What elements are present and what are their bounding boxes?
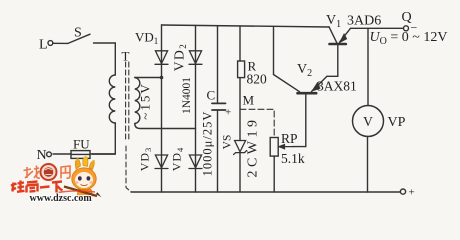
svg-text:V: V xyxy=(363,114,373,129)
node Q terminal xyxy=(404,26,409,31)
wire R branch xyxy=(239,26,241,61)
svg-text:N: N xyxy=(37,148,47,163)
svg-text:~15V: ~15V xyxy=(138,82,153,119)
svg-text:3AX81: 3AX81 xyxy=(317,79,357,94)
diode VD2 xyxy=(189,51,202,65)
svg-text:1N4001: 1N4001 xyxy=(181,77,193,114)
transformer core xyxy=(126,62,131,192)
svg-text:2CW19: 2CW19 xyxy=(246,116,261,177)
svg-text:C: C xyxy=(207,88,216,103)
wire VS to bottom rail xyxy=(239,153,241,192)
dashed link node M to RP xyxy=(240,109,274,137)
svg-text:T: T xyxy=(122,49,130,64)
node L terminal xyxy=(48,41,53,46)
svg-text:+: + xyxy=(225,107,231,119)
wire VD1 branch xyxy=(161,25,163,192)
wire L to switch xyxy=(53,42,68,44)
wire V2 collector branch xyxy=(273,26,275,74)
svg-text:5.1k: 5.1k xyxy=(281,151,305,166)
bottom rail xyxy=(131,191,400,193)
wire V2 emitter to V1 base xyxy=(327,45,338,76)
transformer T primary winding xyxy=(109,75,115,123)
svg-text:820: 820 xyxy=(247,72,268,87)
svg-text:M: M xyxy=(243,93,255,108)
watermark red seal circle xyxy=(41,164,57,180)
junction secondary-top node xyxy=(160,76,164,80)
top rail xyxy=(162,25,330,27)
wire VP branch bottom xyxy=(367,137,369,193)
transistor V2 xyxy=(274,75,328,94)
watermark mascot xyxy=(58,156,102,200)
wire VP branch top xyxy=(367,28,369,105)
wire capacitor C branch top xyxy=(217,26,219,103)
svg-text:RP: RP xyxy=(281,131,298,146)
watermark weiku-yixia red text strokes xyxy=(11,181,63,193)
wire secondary bottom to bridge xyxy=(135,124,196,129)
wire capacitor C branch bottom xyxy=(217,110,219,192)
voltmeter VP xyxy=(353,106,384,137)
zener diode VS xyxy=(234,141,247,155)
RP wiper arrow xyxy=(279,145,292,149)
svg-text:3AD6: 3AD6 xyxy=(347,14,381,29)
switch S arm xyxy=(68,34,90,43)
svg-text:+: + xyxy=(409,187,415,199)
svg-text:FU: FU xyxy=(73,137,90,152)
node + terminal xyxy=(400,189,405,194)
transistor V1 xyxy=(329,27,351,44)
potentiometer RP xyxy=(270,138,278,157)
diode VD1 xyxy=(155,51,168,65)
diode VD4 xyxy=(189,155,202,169)
fuse FU xyxy=(71,151,90,159)
wire switch to transformer top xyxy=(94,43,116,75)
svg-text:L: L xyxy=(39,38,48,53)
wire primary bottom to fuse xyxy=(92,123,115,154)
wire RP bottom xyxy=(273,156,275,192)
wire RP wiper to V2 base xyxy=(292,95,306,147)
wire VD2 branch xyxy=(195,25,197,192)
watermark zhao-pian outlined chars xyxy=(24,166,71,179)
svg-text:VS: VS xyxy=(222,135,234,150)
node N terminal xyxy=(47,152,52,157)
diode VD3 xyxy=(155,155,168,169)
svg-text:1000μ/25V: 1000μ/25V xyxy=(201,111,215,177)
wire R to VS xyxy=(239,78,241,141)
resistor R xyxy=(238,61,245,78)
svg-text:VP: VP xyxy=(388,115,406,130)
transformer secondary winding xyxy=(135,78,140,124)
capacitor C plates xyxy=(212,103,226,110)
output wire to Q xyxy=(351,27,404,29)
svg-text:www.dzsc.com: www.dzsc.com xyxy=(30,193,93,204)
svg-text:S: S xyxy=(74,26,82,41)
watermark xyxy=(11,156,102,204)
wire secondary top to bridge xyxy=(135,77,162,79)
